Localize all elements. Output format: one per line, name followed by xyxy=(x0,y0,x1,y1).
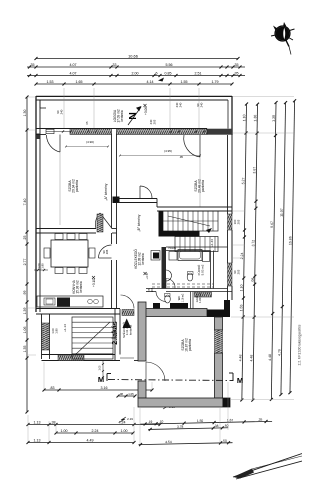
svg-text:kerámia: kerámia xyxy=(128,324,132,335)
svg-text:1.05: 1.05 xyxy=(128,392,134,396)
svg-text:2.2. M=1:100 lakásegyesítés: 2.2. M=1:100 lakásegyesítés xyxy=(298,324,302,365)
svg-text:4.54: 4.54 xyxy=(165,440,172,444)
svg-text:240: 240 xyxy=(179,102,183,107)
svg-text:1.13: 1.13 xyxy=(34,421,41,425)
svg-text:parketta: parketta xyxy=(201,180,205,192)
svg-text:1.00: 1.00 xyxy=(61,429,68,433)
svg-text:.50: .50 xyxy=(222,439,227,443)
svg-text:10.66: 10.66 xyxy=(128,54,138,59)
svg-text:4.48: 4.48 xyxy=(268,354,272,361)
svg-text:4.07: 4.07 xyxy=(70,63,77,67)
svg-text:+3.10: +3.10 xyxy=(92,279,96,287)
svg-text:240: 240 xyxy=(200,102,204,107)
svg-text:4.07: 4.07 xyxy=(70,72,77,76)
svg-text:5.27: 5.27 xyxy=(241,177,245,184)
svg-text:2.24: 2.24 xyxy=(92,429,99,433)
svg-text:4.48: 4.48 xyxy=(249,355,253,362)
svg-text:205: 205 xyxy=(105,249,109,254)
svg-text:205: 205 xyxy=(153,119,157,124)
svg-text:(4.95): (4.95) xyxy=(164,149,172,153)
svg-text:3.67: 3.67 xyxy=(252,167,256,174)
svg-text:240: 240 xyxy=(60,109,64,114)
svg-text:(4.90): (4.90) xyxy=(86,140,94,144)
svg-text:1.35: 1.35 xyxy=(23,346,27,353)
svg-text:75/205: 75/205 xyxy=(168,246,176,250)
svg-text:.38: .38 xyxy=(51,421,56,425)
svg-text:1.50: 1.50 xyxy=(197,419,204,423)
svg-text:2.lakás: 2.lakás xyxy=(112,321,119,344)
svg-text:4.48: 4.48 xyxy=(238,354,242,361)
svg-text:kerámia: kerámia xyxy=(120,110,124,122)
svg-text:5.56: 5.56 xyxy=(166,63,173,67)
svg-text:.35: .35 xyxy=(258,418,263,422)
svg-text:.83: .83 xyxy=(50,386,55,390)
svg-text:1.30: 1.30 xyxy=(23,110,27,117)
svg-text:1.30: 1.30 xyxy=(253,115,257,122)
svg-text:15.86: 15.86 xyxy=(288,236,292,245)
svg-text:.6: .6 xyxy=(155,72,158,76)
svg-text:3.78: 3.78 xyxy=(177,425,184,429)
svg-text:0.85: 0.85 xyxy=(165,72,172,76)
svg-text:4.79: 4.79 xyxy=(278,349,282,356)
svg-text:M: M xyxy=(237,376,243,385)
svg-text:1.30: 1.30 xyxy=(272,115,276,122)
svg-text:1.53: 1.53 xyxy=(47,80,54,84)
svg-text:4.49: 4.49 xyxy=(87,439,94,443)
svg-text:+3.17: +3.17 xyxy=(145,272,149,280)
svg-text:1.13: 1.13 xyxy=(34,439,41,443)
svg-text:„A” kémény: „A” kémény xyxy=(104,183,108,200)
svg-text:4.14: 4.14 xyxy=(147,80,154,84)
svg-text:1.39: 1.39 xyxy=(23,308,27,315)
svg-text:parketta: parketta xyxy=(188,339,192,351)
svg-text:.25: .25 xyxy=(23,236,27,241)
svg-text:1.67: 1.67 xyxy=(227,418,234,422)
svg-text:7.40: 7.40 xyxy=(23,199,27,206)
svg-text:2.24: 2.24 xyxy=(240,252,244,259)
svg-text:+1.14: +1.14 xyxy=(63,324,67,332)
svg-text:1.10: 1.10 xyxy=(240,284,244,291)
svg-text:.35: .35 xyxy=(30,63,35,67)
svg-text:1.55: 1.55 xyxy=(181,80,188,84)
svg-text:.08: .08 xyxy=(119,392,123,396)
svg-text:1.80 m2: 1.80 m2 xyxy=(198,293,202,303)
svg-text:1.16 m2: 1.16 m2 xyxy=(182,293,185,302)
svg-text:.95: .95 xyxy=(179,155,183,159)
svg-text:4.24: 4.24 xyxy=(119,421,126,425)
svg-text:.10: .10 xyxy=(159,420,164,424)
svg-text:kerámia: kerámia xyxy=(141,253,145,265)
svg-text:1.00: 1.00 xyxy=(121,429,128,433)
svg-text:WC: WC xyxy=(177,296,181,301)
svg-text:.33: .33 xyxy=(112,63,117,67)
svg-text:205: 205 xyxy=(237,269,241,274)
svg-text:1.80: 1.80 xyxy=(41,263,45,269)
svg-text:205: 205 xyxy=(150,287,154,292)
svg-text:+1.44: +1.44 xyxy=(210,239,214,247)
svg-text:1.00: 1.00 xyxy=(99,365,102,370)
svg-text:1.10: 1.10 xyxy=(242,114,246,121)
svg-text:.19: .19 xyxy=(148,420,153,424)
svg-text:3.16: 3.16 xyxy=(101,386,108,390)
svg-text:1.79: 1.79 xyxy=(212,80,219,84)
svg-text:9.67: 9.67 xyxy=(270,221,274,228)
svg-text:parketta: parketta xyxy=(75,180,79,192)
svg-text:2.19: 2.19 xyxy=(127,417,133,421)
svg-text:5.03 m2: 5.03 m2 xyxy=(200,264,204,275)
svg-text:205: 205 xyxy=(237,219,241,224)
svg-text:kerámia: kerámia xyxy=(79,281,83,293)
svg-text:3.72: 3.72 xyxy=(251,240,255,247)
svg-text:1.06: 1.06 xyxy=(23,327,27,334)
svg-text:1.80: 1.80 xyxy=(55,328,59,334)
svg-text:2.00: 2.00 xyxy=(132,72,139,76)
svg-text:„B” kémény: „B” kémény xyxy=(137,214,141,231)
svg-text:2.51: 2.51 xyxy=(195,72,202,76)
svg-text:.38: .38 xyxy=(214,424,219,428)
svg-text:2.77: 2.77 xyxy=(23,259,27,266)
svg-text:11.07: 11.07 xyxy=(280,208,284,217)
svg-text:+3.06: +3.06 xyxy=(144,107,148,115)
svg-text:1.65: 1.65 xyxy=(76,80,83,84)
svg-text:1.55: 1.55 xyxy=(239,304,243,311)
svg-text:.99: .99 xyxy=(23,291,27,296)
svg-text:.08: .08 xyxy=(251,278,255,283)
